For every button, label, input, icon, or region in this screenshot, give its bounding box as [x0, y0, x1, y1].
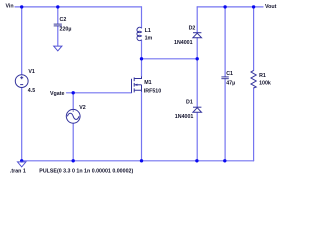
- svg-text:IRF510: IRF510: [144, 88, 161, 94]
- wire D1 top lead: [196, 59, 198, 107]
- wire V1 top lead: [21, 7, 23, 75]
- wire V2 top lead: [72, 93, 74, 110]
- svg-text:Vout: Vout: [265, 4, 277, 10]
- ground bottom left: [18, 162, 26, 167]
- wire C1 bottom lead: [224, 79, 226, 161]
- svg-text:Vin: Vin: [6, 3, 14, 9]
- body lead with arrow: [135, 84, 142, 86]
- right vertical body-source: [141, 85, 143, 91]
- capacitor C2: [54, 24, 62, 26]
- wire inductor branch top corner: [141, 7, 143, 28]
- svg-text:47µ: 47µ: [226, 80, 235, 86]
- svg-text:1N4001: 1N4001: [175, 114, 194, 120]
- voltage source V2 (pulse): [66, 109, 80, 123]
- svg-text:C1: C1: [226, 71, 233, 77]
- gate bar: [131, 79, 133, 93]
- svg-text:220µ: 220µ: [60, 26, 72, 32]
- svg-text:.tran 1: .tran 1: [10, 168, 26, 174]
- wire V1 bottom lead: [21, 88, 23, 161]
- wire D2 bottom lead: [196, 38, 198, 59]
- svg-text:4.5: 4.5: [28, 88, 35, 94]
- wire V2 bottom lead: [72, 123, 74, 161]
- resistor R1: [251, 70, 256, 88]
- svg-text:C2: C2: [60, 17, 67, 23]
- svg-text:R1: R1: [259, 73, 266, 79]
- svg-text:PULSE(0 3.3 0 1n 1n 0.00001 0.: PULSE(0 3.3 0 1n 1n 0.00001 0.00002): [39, 168, 133, 174]
- nmos transistor M1: [132, 77, 142, 93]
- wire Vgate horizontal: [67, 92, 132, 94]
- wire C2 top lead: [57, 7, 59, 24]
- voltage source V1: [15, 75, 28, 88]
- wire R1 top lead: [253, 7, 255, 71]
- svg-text:V2: V2: [79, 105, 86, 111]
- svg-text:D2: D2: [189, 26, 196, 32]
- wire switch node down to M1 drain: [141, 59, 143, 77]
- ground under C2: [54, 46, 62, 51]
- wire L1 bottom to switch node: [141, 40, 143, 59]
- inductor L1: [137, 27, 142, 40]
- svg-text:V1: V1: [28, 69, 35, 75]
- wire ground stub bottom left: [21, 161, 23, 162]
- svg-text:1N4001: 1N4001: [174, 40, 193, 46]
- wire top rail right (D2 to Vout): [197, 6, 263, 8]
- svg-text:100k: 100k: [259, 81, 271, 87]
- wire C2 to ground: [57, 26, 59, 46]
- svg-text:D1: D1: [186, 100, 193, 106]
- diode D1: [193, 107, 202, 112]
- drain lead: [134, 77, 141, 79]
- svg-text:1m: 1m: [145, 36, 153, 42]
- source lead: [134, 90, 141, 92]
- wire D1 bottom lead: [196, 112, 198, 160]
- svg-text:M1: M1: [144, 80, 151, 86]
- wire top rail left (Vin to inductor corner): [15, 6, 142, 8]
- diode D2: [193, 33, 202, 38]
- wire M1 source to bottom rail: [141, 92, 143, 161]
- capacitor C1: [221, 77, 228, 79]
- wire mid rail (switch node): [142, 58, 198, 60]
- junction node dots: [20, 5, 255, 162]
- svg-text:Vgate: Vgate: [50, 91, 64, 97]
- wire D2 top lead: [196, 7, 198, 33]
- wire C1 top lead: [224, 7, 226, 77]
- channel segments: [133, 77, 135, 81]
- wire R1 bottom lead: [253, 88, 255, 161]
- wire bottom rail (ground net): [22, 160, 254, 162]
- svg-text:L1: L1: [145, 28, 151, 34]
